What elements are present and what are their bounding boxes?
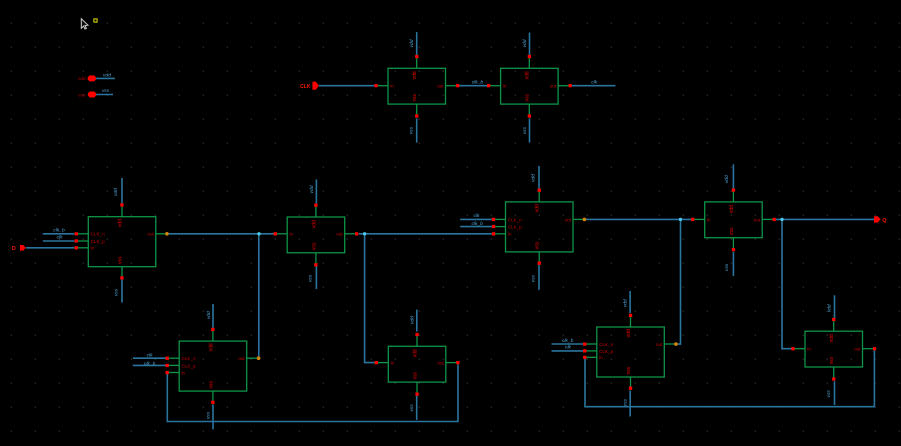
svg-text:vss: vss bbox=[531, 274, 536, 282]
svg-text:CLK_p: CLK_p bbox=[91, 239, 105, 244]
svg-text:vss: vss bbox=[117, 256, 123, 264]
svg-text:vss: vss bbox=[78, 93, 86, 98]
svg-text:vdd: vdd bbox=[113, 188, 119, 196]
svg-text:vdd: vdd bbox=[729, 205, 735, 213]
svg-text:in: in bbox=[91, 246, 95, 251]
svg-text:in: in bbox=[508, 232, 512, 237]
svg-text:vdd: vdd bbox=[724, 175, 730, 183]
svg-text:out: out bbox=[656, 342, 663, 347]
svg-text:in: in bbox=[707, 217, 711, 222]
svg-text:vss: vss bbox=[412, 371, 418, 379]
svg-text:vdd: vdd bbox=[117, 219, 123, 227]
svg-text:out: out bbox=[336, 232, 343, 237]
svg-text:out: out bbox=[565, 217, 572, 222]
svg-text:clk: clk bbox=[565, 345, 572, 351]
svg-text:vss: vss bbox=[624, 398, 629, 406]
svg-text:out: out bbox=[437, 361, 444, 366]
svg-text:vdd: vdd bbox=[206, 311, 212, 319]
svg-text:out: out bbox=[147, 232, 154, 237]
svg-text:vdd: vdd bbox=[78, 76, 86, 82]
svg-text:vdd: vdd bbox=[525, 71, 531, 79]
svg-text:CLK_n: CLK_n bbox=[599, 342, 613, 347]
svg-text:vss: vss bbox=[535, 241, 541, 249]
svg-text:out: out bbox=[754, 217, 761, 222]
svg-text:vdd: vdd bbox=[530, 174, 536, 182]
svg-text:clk: clk bbox=[591, 79, 598, 85]
svg-text:CLK_p: CLK_p bbox=[182, 363, 196, 368]
svg-text:vdd: vdd bbox=[103, 73, 111, 79]
svg-text:in: in bbox=[503, 84, 507, 89]
svg-text:vdd: vdd bbox=[309, 185, 315, 193]
svg-text:out: out bbox=[437, 84, 444, 89]
svg-text:vss: vss bbox=[827, 390, 832, 398]
svg-text:vss: vss bbox=[115, 288, 120, 296]
svg-text:CLK_n: CLK_n bbox=[508, 217, 522, 222]
svg-text:CLK_p: CLK_p bbox=[599, 349, 613, 354]
svg-text:vdd: vdd bbox=[311, 220, 317, 228]
svg-text:vss: vss bbox=[523, 126, 528, 134]
svg-text:vdd: vdd bbox=[626, 329, 632, 337]
svg-text:vdd: vdd bbox=[826, 304, 832, 312]
svg-text:vss: vss bbox=[412, 93, 418, 101]
svg-text:vdd: vdd bbox=[829, 334, 835, 342]
svg-text:clk_b: clk_b bbox=[471, 221, 483, 227]
svg-text:vss: vss bbox=[309, 274, 314, 282]
svg-text:CLK: CLK bbox=[300, 84, 311, 90]
svg-text:vss: vss bbox=[206, 411, 211, 419]
svg-text:clk_b: clk_b bbox=[53, 227, 65, 233]
svg-text:vdd: vdd bbox=[522, 39, 528, 47]
svg-text:vdd: vdd bbox=[410, 316, 416, 324]
svg-text:out: out bbox=[854, 347, 861, 352]
svg-text:vss: vss bbox=[525, 93, 531, 101]
svg-text:vss: vss bbox=[626, 366, 632, 374]
svg-text:out: out bbox=[550, 84, 557, 89]
svg-text:clk: clk bbox=[57, 235, 64, 241]
svg-text:clk_b: clk_b bbox=[562, 338, 574, 344]
svg-text:vss: vss bbox=[102, 89, 110, 94]
svg-text:vss: vss bbox=[725, 263, 730, 271]
svg-text:clk: clk bbox=[147, 353, 154, 359]
svg-text:CLK_n: CLK_n bbox=[91, 232, 105, 237]
svg-text:clk_b: clk_b bbox=[144, 361, 156, 367]
svg-text:in: in bbox=[182, 370, 186, 375]
svg-text:Q: Q bbox=[882, 218, 886, 224]
svg-text:D: D bbox=[12, 246, 16, 252]
svg-text:in: in bbox=[391, 361, 395, 366]
svg-text:clk: clk bbox=[474, 213, 481, 219]
svg-text:vss: vss bbox=[410, 126, 415, 134]
svg-text:vss: vss bbox=[311, 242, 317, 250]
svg-text:vdd: vdd bbox=[412, 349, 418, 357]
svg-text:in: in bbox=[599, 355, 603, 360]
svg-text:vdd: vdd bbox=[535, 204, 541, 212]
svg-text:in: in bbox=[390, 84, 394, 89]
svg-text:vss: vss bbox=[729, 227, 735, 235]
svg-text:vss: vss bbox=[829, 356, 835, 364]
svg-text:vss: vss bbox=[410, 404, 415, 412]
svg-text:CLK_p: CLK_p bbox=[508, 225, 522, 230]
svg-text:in: in bbox=[290, 232, 294, 237]
svg-text:clk_b: clk_b bbox=[472, 79, 484, 85]
svg-text:vdd: vdd bbox=[623, 299, 629, 307]
svg-text:vdd: vdd bbox=[409, 39, 415, 47]
svg-text:vss: vss bbox=[208, 380, 214, 388]
svg-text:in: in bbox=[807, 347, 811, 352]
svg-text:vdd: vdd bbox=[208, 343, 214, 351]
svg-text:vdd: vdd bbox=[412, 71, 418, 79]
svg-text:CLK_n: CLK_n bbox=[182, 356, 196, 361]
svg-text:out: out bbox=[238, 356, 245, 361]
